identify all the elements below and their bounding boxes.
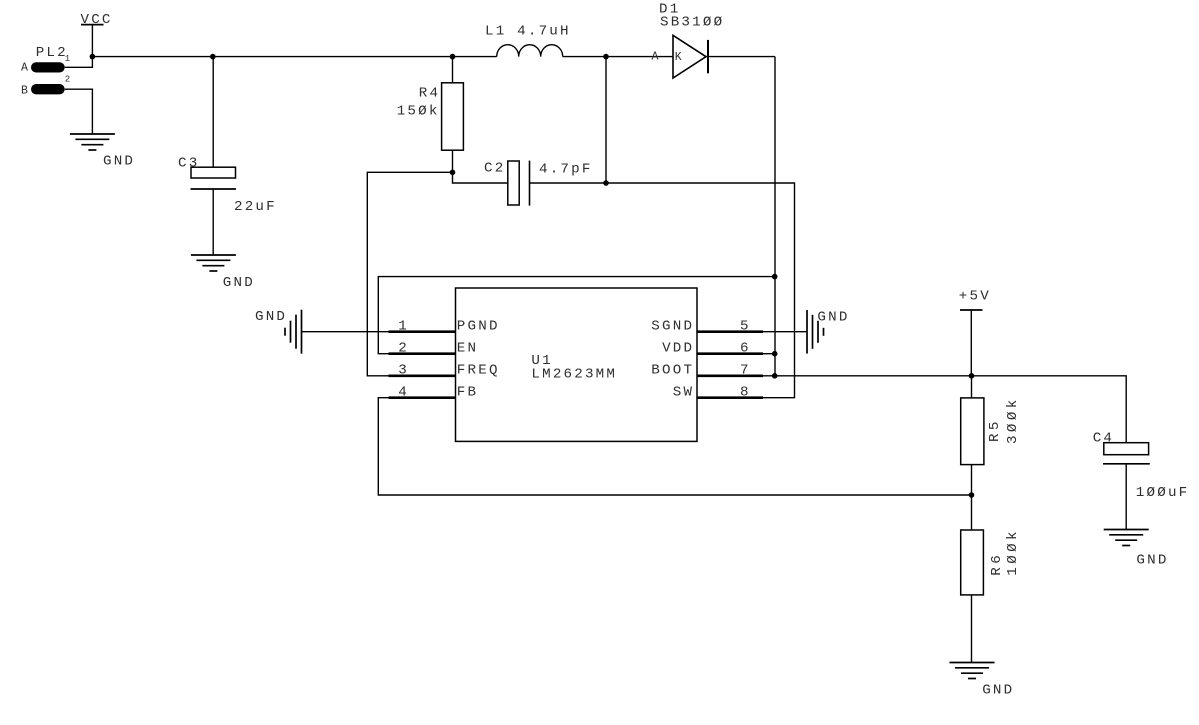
svg-text:BOOT: BOOT bbox=[651, 363, 694, 379]
ground GND at PGND bbox=[255, 309, 302, 354]
svg-text:R6: R6 bbox=[989, 552, 1005, 576]
svg-text:FB: FB bbox=[457, 385, 478, 401]
svg-text:15Øk: 15Øk bbox=[397, 104, 440, 120]
pin 1 PGND bbox=[389, 319, 500, 335]
inductor L1 4.7uH bbox=[485, 23, 571, 56]
svg-text:FREQ: FREQ bbox=[457, 363, 500, 379]
svg-text:R4: R4 bbox=[419, 85, 440, 101]
node junction SW/diode anode bbox=[603, 54, 609, 60]
svg-text:EN: EN bbox=[457, 341, 478, 357]
svg-text:C3: C3 bbox=[178, 155, 199, 171]
svg-text:B: B bbox=[21, 85, 30, 98]
wire FB to divider node bbox=[378, 398, 971, 495]
svg-text:SW: SW bbox=[673, 385, 694, 401]
wire EN to output node bbox=[378, 277, 774, 354]
svg-text:+5V: +5V bbox=[959, 288, 991, 304]
IC U1 LM2623MM body bbox=[456, 288, 698, 441]
svg-text:3ØØk: 3ØØk bbox=[1005, 396, 1021, 444]
node junction EN/output bbox=[772, 274, 778, 280]
capacitor C2 4.7pF bbox=[484, 160, 593, 205]
svg-text:VDD: VDD bbox=[662, 341, 694, 357]
svg-text:PL2: PL2 bbox=[36, 45, 68, 61]
node junction +5V/R5 bbox=[969, 373, 975, 379]
node junction C3 bbox=[210, 54, 216, 60]
svg-text:1ØØk: 1ØØk bbox=[1005, 528, 1021, 576]
node junction R4 top bbox=[450, 54, 456, 60]
pin 4 FB bbox=[389, 385, 479, 401]
svg-text:GND: GND bbox=[982, 682, 1014, 698]
svg-text:C2: C2 bbox=[484, 160, 505, 176]
pin 8 SW bbox=[673, 385, 763, 401]
svg-text:R5: R5 bbox=[987, 418, 1003, 442]
power flag VCC bbox=[81, 12, 113, 28]
svg-text:22uF: 22uF bbox=[234, 199, 277, 215]
capacitor C4 100uF bbox=[1093, 430, 1190, 529]
wire input bus VCC node to L1 bbox=[92, 56, 496, 58]
node junction C2 output bbox=[603, 180, 609, 186]
resistor R4 150k bbox=[397, 57, 464, 173]
svg-text:GND: GND bbox=[1136, 552, 1168, 568]
resistor R6 100k bbox=[961, 495, 1021, 663]
svg-text:A: A bbox=[652, 51, 661, 64]
ground GND at R6 bbox=[950, 663, 1015, 699]
wire VDD to output node bbox=[763, 353, 775, 355]
svg-text:LM2623MM: LM2623MM bbox=[531, 367, 617, 383]
svg-text:GND: GND bbox=[103, 154, 135, 170]
wire output vertical to BOOT row bbox=[774, 57, 776, 376]
pin 5 SGND bbox=[651, 319, 763, 335]
svg-text:K: K bbox=[675, 51, 684, 64]
resistor R5 300k bbox=[961, 376, 1021, 495]
wire PL2 pin 1 to VCC node bbox=[65, 57, 93, 68]
connector PL2 bbox=[21, 45, 72, 98]
ground GND at C3 bbox=[191, 255, 255, 291]
svg-text:PGND: PGND bbox=[457, 319, 500, 335]
pin 2 EN bbox=[389, 341, 479, 357]
power flag +5V bbox=[959, 288, 991, 310]
svg-text:GND: GND bbox=[817, 310, 849, 326]
svg-text:GND: GND bbox=[255, 309, 287, 325]
ground GND at C4 bbox=[1104, 530, 1169, 569]
wire C2 to SW pin bbox=[530, 183, 795, 398]
diode D1 SB3100 bbox=[652, 1, 725, 78]
node junction VDD/output bbox=[772, 351, 778, 357]
pin 6 VDD bbox=[662, 341, 763, 357]
wire SGND to ground bbox=[763, 331, 807, 333]
wire +5V to BOOT row bbox=[970, 310, 972, 376]
svg-text:1: 1 bbox=[65, 54, 72, 64]
wire L1 to diode node bbox=[563, 56, 673, 58]
wire FREQ feedback from R4 node bbox=[367, 172, 452, 375]
svg-text:GND: GND bbox=[223, 275, 255, 291]
wire VCC to input node bbox=[91, 25, 93, 57]
pin 7 BOOT bbox=[651, 363, 763, 379]
capacitor C3 bbox=[178, 57, 277, 255]
node junction FB divider bbox=[969, 492, 975, 498]
pin 3 FREQ bbox=[389, 363, 500, 379]
svg-text:SGND: SGND bbox=[651, 319, 694, 335]
ground GND at PL2 bbox=[70, 134, 135, 170]
node junction BOOT/output bbox=[772, 373, 778, 379]
wire BOOT row to C4 bbox=[763, 376, 1126, 443]
ground GND at SGND bbox=[807, 310, 850, 354]
wire diode cathode to output corner bbox=[706, 56, 775, 58]
wire R4 node to C2 bbox=[453, 172, 508, 183]
wire PL2 pin 2 to ground bbox=[65, 89, 93, 134]
svg-text:4.7pF: 4.7pF bbox=[539, 162, 593, 178]
node junction R4 bottom / FREQ / C2 bbox=[450, 170, 456, 176]
svg-text:2: 2 bbox=[65, 75, 72, 85]
svg-text:SB31ØØ: SB31ØØ bbox=[660, 14, 724, 30]
svg-text:A: A bbox=[21, 62, 30, 75]
node junction VCC/PL2 bbox=[90, 54, 96, 60]
wire SW node down to C2 row bbox=[605, 57, 607, 183]
svg-text:1ØØuF: 1ØØuF bbox=[1136, 485, 1190, 501]
wire PGND to ground bbox=[302, 331, 389, 333]
svg-text:L1 4.7uH: L1 4.7uH bbox=[485, 23, 571, 39]
